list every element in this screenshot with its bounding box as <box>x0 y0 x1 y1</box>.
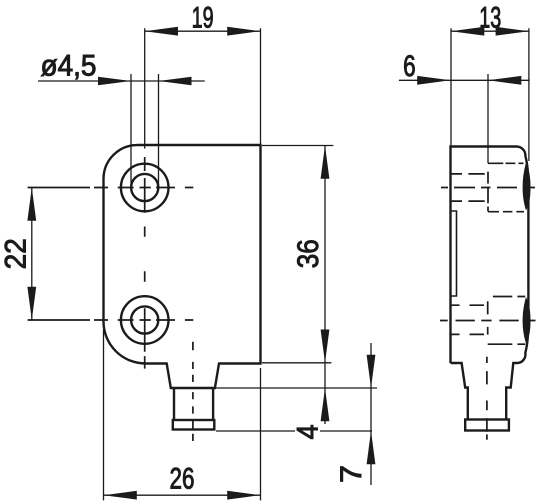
dimension 13 line <box>451 30 529 32</box>
side view horizontal centerline upper <box>441 187 535 189</box>
side view hidden counterbore depth line lower <box>487 301 489 334</box>
dimension 13 arrows <box>451 27 529 36</box>
side view horizontal centerline lower <box>440 320 536 322</box>
dimension 36 arrows <box>321 146 330 363</box>
connector plug sides <box>174 388 213 420</box>
svg-text:ø4,5: ø4,5 <box>41 50 97 83</box>
dimension 7 arrows <box>367 355 376 465</box>
dimension 22 line <box>31 188 33 321</box>
dimension dia 4,5 leader line <box>38 80 205 82</box>
dimension 19 extension lines <box>145 28 261 148</box>
side view right edge thick crescent lower <box>523 297 531 344</box>
side view body outline <box>451 147 529 420</box>
dimension 22 arrows <box>27 188 36 321</box>
side view connector cap <box>465 420 509 431</box>
svg-text:26: 26 <box>170 463 195 496</box>
hole H2 outer circle <box>121 296 169 344</box>
dimension 26 extension lines <box>104 330 261 500</box>
side view hidden counterbore lines upper dia8 <box>488 163 524 211</box>
side view boss outline between counterbores <box>451 211 457 296</box>
svg-text:13: 13 <box>479 2 501 35</box>
side view hidden counterbore depth line upper <box>487 172 489 212</box>
side view hidden counterbore lines lower dia8 <box>488 297 526 345</box>
dimension 26 arrows <box>104 491 261 500</box>
front view plate and connector outline <box>104 145 261 388</box>
connector centerline front <box>192 342 194 441</box>
dimension 36 extension lines <box>262 146 333 363</box>
hole H2 vertical centerline <box>144 308 146 368</box>
svg-text:6: 6 <box>403 50 416 83</box>
dimension dia 4,5 extension lines <box>131 74 159 188</box>
dimension dia 4,5 arrows <box>98 77 192 85</box>
svg-text:7: 7 <box>335 465 368 483</box>
hole H2 inner circle <box>131 306 158 333</box>
hole H1 horizontal centerline <box>28 187 194 189</box>
dimension 19 arrows <box>145 27 261 36</box>
side view right edge thick crescent upper <box>523 163 531 211</box>
dimension 6 arrows <box>417 76 521 85</box>
dimension 4 extension line <box>216 387 377 389</box>
hole H1 outer circle <box>121 164 169 212</box>
dimension 7 line <box>370 343 372 485</box>
dimension 26 line <box>104 494 261 496</box>
side view hidden hole lines lower dia4.5 <box>452 305 485 334</box>
hole H2 horizontal centerline <box>28 319 194 321</box>
dimension 19 line <box>145 30 261 32</box>
svg-text:22: 22 <box>0 238 32 269</box>
hole H1 inner circle <box>131 174 158 201</box>
hole H1 vertical centerline <box>144 157 146 282</box>
svg-text:4: 4 <box>292 424 325 439</box>
svg-text:19: 19 <box>192 2 214 35</box>
dimension 13 extension lines <box>451 28 529 161</box>
dimension 6 line <box>399 79 530 81</box>
dimension 36 and 4 line <box>324 146 326 425</box>
dimension 7 extension line <box>216 430 372 432</box>
side view hidden hole lines upper dia4.5 <box>452 174 485 201</box>
svg-text:36: 36 <box>292 239 325 268</box>
connector cap <box>173 420 215 430</box>
side view connector centerline <box>486 357 488 440</box>
dimension 4 arrow <box>321 388 330 421</box>
dimension 6 extension line <box>487 74 489 163</box>
